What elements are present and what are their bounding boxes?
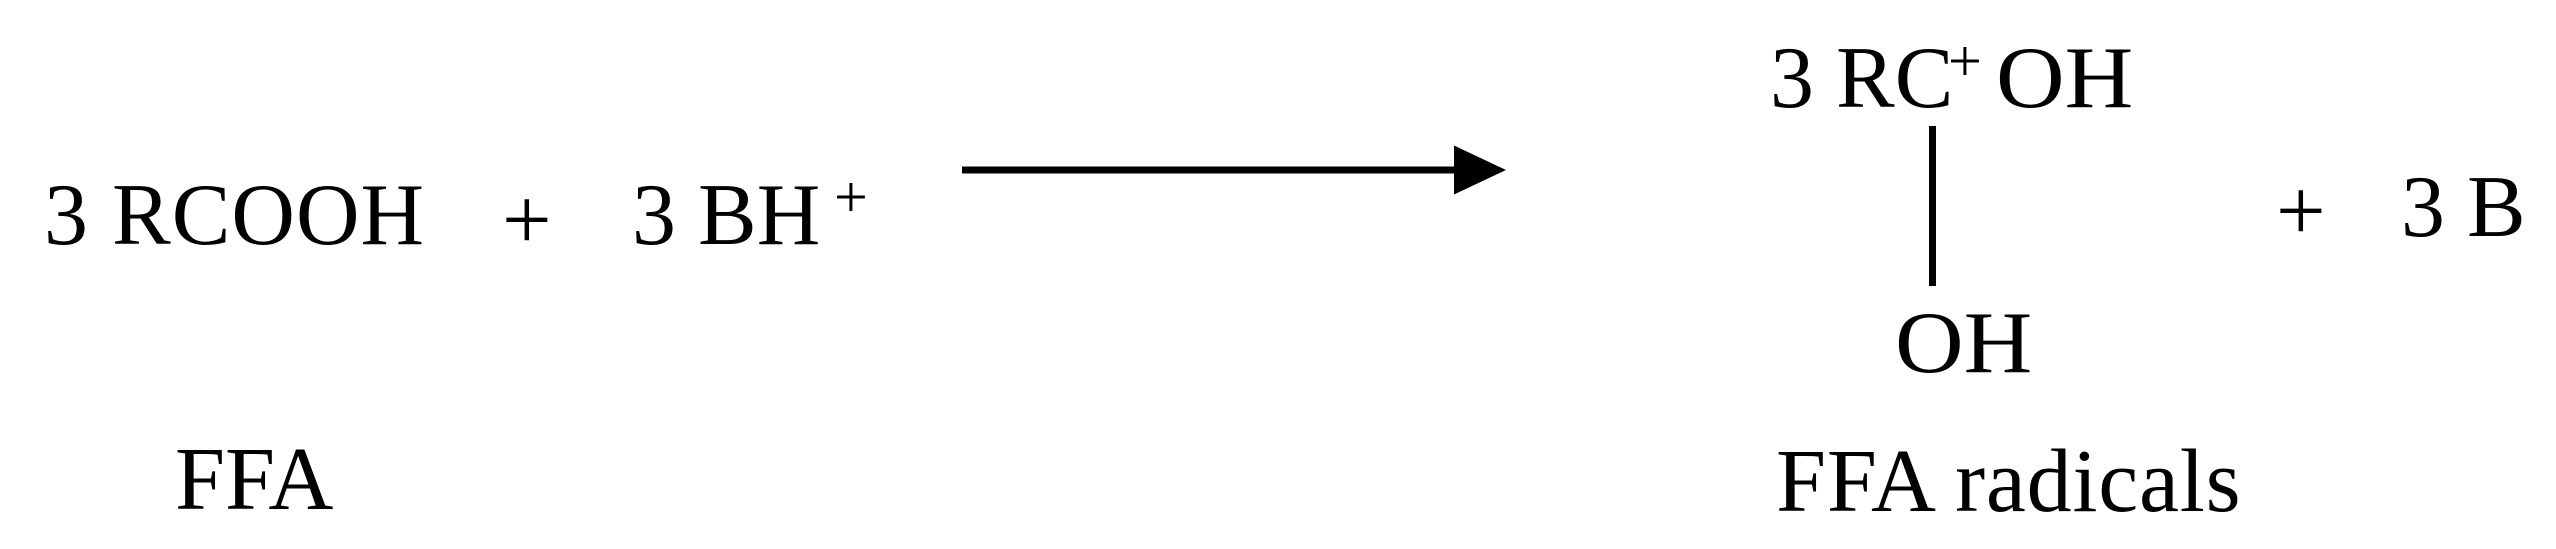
bond line vertical: [1929, 126, 1936, 286]
reactant formula 3 RCOOH: [44, 166, 425, 266]
plus sign right: [2276, 162, 2326, 262]
reaction arrow: [950, 130, 1520, 210]
superscript plus charge on BH: [834, 147, 868, 247]
reactant formula 3 BH: [632, 166, 820, 266]
product formula 3 B: [2401, 158, 2526, 258]
plus sign left: [502, 171, 552, 271]
superscript plus charge on RC: [1948, 11, 1982, 111]
label FFA: [175, 430, 333, 530]
product OH lower: [1895, 294, 2032, 394]
product OH upper: [1996, 29, 2133, 129]
product formula 3 RC: [1770, 29, 1953, 129]
label FFA radicals: [1776, 432, 2241, 532]
